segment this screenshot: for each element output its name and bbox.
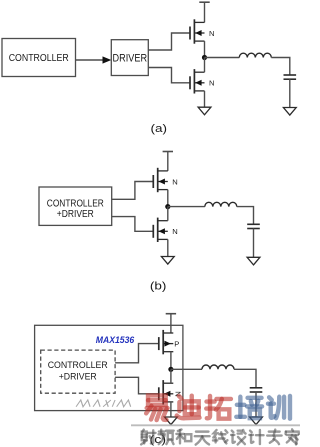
- transistor Q2 low-side (b) drain stub: [158, 220, 168, 222]
- transistor Q2 low-side (a) body arrow: [195, 80, 201, 86]
- watermark line 2: 射频和天线设计专家: [141, 429, 299, 444]
- transistor Q2 N-channel (c) drain stub: [163, 382, 173, 384]
- ground Q2 source ground (c): [165, 417, 178, 425]
- transistor Q1 high-side (b) channel bar: [157, 168, 159, 192]
- svg-text:N: N: [209, 79, 214, 88]
- transistor Q2 N-channel (c) gate bar: [158, 387, 160, 400]
- wire driver to high-side gate (a): [148, 33, 190, 50]
- ground Q2 source ground (b): [161, 257, 174, 265]
- wire capacitor to ground (b): [253, 229, 255, 258]
- junction node LX (c): [168, 367, 173, 372]
- transistor Q2 low-side (a) body stub: [194, 82, 204, 84]
- wire capacitor to ground (c): [255, 392, 257, 417]
- supply rail terminal input rail (b): [163, 151, 173, 153]
- svg-text:N: N: [172, 177, 177, 186]
- wire rail to Q1 drain (a): [204, 2, 206, 22]
- wire inductor to capacitor (c): [234, 369, 256, 388]
- wire Q2 source to ground (a): [204, 91, 206, 107]
- wire to high-side gate (b): [112, 182, 154, 200]
- MAX1536 IC outline box (c): [35, 325, 183, 410]
- ground Q2 source ground (a): [198, 107, 211, 115]
- transistor Q1 P-channel (c) gate bar: [158, 337, 160, 350]
- transistor Q1 high-side (a) body stub: [194, 32, 204, 34]
- watermark divider line: [131, 424, 300, 426]
- transistor Q1 high-side (a) source stub: [194, 40, 204, 42]
- capacitor C1 (c): [250, 387, 263, 389]
- wire P-FET drain to node (c): [170, 352, 172, 370]
- transistor Q1 P-channel (c) body arrow: [164, 341, 170, 347]
- capacitor C1 (a): [284, 74, 297, 76]
- transistor Q1 high-side (b) source stub: [158, 189, 168, 191]
- transistor Q1 high-side (b) body stub: [158, 181, 168, 183]
- transistor Q2 N-channel (c) body stub: [163, 393, 173, 395]
- wire node to inductor (a): [205, 57, 240, 59]
- transistor Q2 N-channel (c) channel bar: [162, 380, 164, 404]
- driver block box (a): [111, 40, 148, 76]
- svg-text:+DRIVER: +DRIVER: [59, 371, 97, 382]
- transistor Q1 high-side (a) body arrow: [195, 30, 201, 36]
- supply rail terminal input rail (a): [199, 1, 209, 3]
- wire node to Q2 drain (a): [204, 58, 206, 73]
- svg-text:N: N: [172, 227, 177, 236]
- wire driver to low-side gate (a): [148, 68, 190, 83]
- svg-text:+DRIVER: +DRIVER: [57, 209, 94, 220]
- wire node to inductor (c): [171, 368, 202, 370]
- transistor Q2 low-side (b) gate bar: [152, 225, 154, 238]
- transistor Q1 high-side (b) gate bar: [152, 175, 154, 188]
- wire rail to P-FET source (c): [170, 314, 172, 333]
- transistor Q1 P-channel (c) channel bar: [162, 330, 164, 354]
- wire Q1 source to node LX (a): [204, 41, 206, 57]
- transistor Q1 high-side (b) drain stub: [158, 170, 168, 172]
- wire node to Q2 drain (b): [167, 207, 169, 221]
- controller+driver block box (b): [39, 187, 112, 225]
- transistor Q1 high-side (a) drain stub: [194, 21, 204, 23]
- svg-text:(b): (b): [150, 281, 167, 293]
- transistor Q1 high-side (a) channel bar: [193, 19, 195, 43]
- wire Q2 source to ground (b): [167, 239, 169, 256]
- controller block box (a): [2, 39, 76, 77]
- capacitor C1 (b): [247, 223, 260, 225]
- transistor Q2 low-side (a) drain stub: [194, 71, 204, 73]
- transistor Q2 low-side (a) gate bar: [189, 76, 191, 89]
- svg-text:CONTROLLER: CONTROLLER: [9, 53, 69, 64]
- wire node to N-FET drain (c): [170, 369, 172, 383]
- ground output ground (c): [250, 417, 263, 425]
- transistor Q2 low-side (a) source stub: [194, 90, 204, 92]
- transistor Q2 low-side (b) body arrow: [159, 228, 165, 234]
- watermark line 1: red text 易迪拓培训: [146, 395, 290, 420]
- inductor L1 (c): [202, 365, 234, 369]
- svg-text:(a): (a): [151, 123, 168, 135]
- wire inductor to capacitor (a): [271, 58, 290, 76]
- svg-text:DRIVER: DRIVER: [113, 53, 148, 65]
- transistor Q2 low-side (a) channel bar: [193, 69, 195, 93]
- wire N-FET source to ground (c): [170, 402, 172, 417]
- transistor Q1 P-channel (c) body stub: [163, 343, 173, 345]
- svg-text:CONTROLLER: CONTROLLER: [48, 360, 108, 371]
- transistor Q2 low-side (b) channel bar: [157, 218, 159, 242]
- wire node to inductor (b): [168, 206, 205, 208]
- inductor L1 (a): [239, 53, 271, 57]
- arrowhead controller-to-driver (a): [103, 56, 112, 63]
- transistor Q1 P-channel (c) drain stub: [163, 332, 173, 334]
- svg-text:CONTROLLER: CONTROLLER: [47, 198, 104, 209]
- transistor Q1 P-channel (c) source stub: [163, 351, 173, 353]
- ground output ground (a): [283, 108, 296, 116]
- wire to low-side gate (b): [112, 217, 154, 232]
- transistor Q2 low-side (b) source stub: [158, 238, 168, 240]
- junction node LX (b): [165, 204, 170, 209]
- MAXIM logo (c): [76, 400, 132, 407]
- transistor Q1 high-side (b) body arrow: [159, 179, 165, 185]
- transistor Q2 N-channel (c) body arrow: [164, 391, 170, 397]
- svg-text:MAX1536: MAX1536: [96, 335, 135, 346]
- transistor Q2 N-channel (c) source stub: [163, 401, 173, 403]
- supply rail terminal input rail (c): [166, 313, 176, 315]
- junction node LX (a): [202, 55, 207, 60]
- svg-text:P: P: [174, 339, 179, 348]
- wire inductor to capacitor (b): [237, 207, 254, 225]
- wire to P-FET gate (c): [115, 344, 159, 363]
- wire to N-FET gate (c): [115, 377, 159, 394]
- transistor Q2 low-side (b) body stub: [158, 230, 168, 232]
- svg-text:N: N: [209, 29, 214, 38]
- ground output ground (b): [247, 257, 260, 265]
- inductor L1 (b): [205, 202, 237, 206]
- wire Q1 source to node (b): [167, 190, 169, 207]
- wire capacitor to ground (a): [289, 79, 291, 107]
- wire controller-to-driver (a): [76, 59, 104, 61]
- transistor Q1 high-side (a) gate bar: [189, 27, 191, 40]
- controller+driver dashed box (c): [41, 350, 115, 393]
- wire rail to Q1 drain (b): [167, 152, 169, 171]
